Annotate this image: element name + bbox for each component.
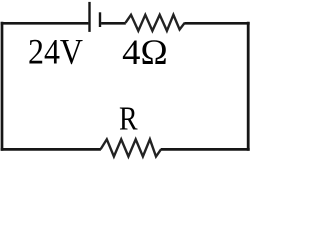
- wire: battery to resistor R1: [101, 22, 126, 25]
- resistor R1 (4 ohm) zigzag: [126, 15, 185, 31]
- svg-text:4Ω: 4Ω: [122, 32, 168, 72]
- wire: bottom-left horizontal segment: [1, 148, 101, 151]
- wire: bottom-right horizontal segment: [161, 148, 250, 151]
- wire: left vertical side: [1, 22, 4, 151]
- svg-text:R: R: [119, 101, 138, 138]
- battery B1 long plate (positive terminal): [88, 2, 90, 32]
- wire: right vertical side: [247, 22, 250, 151]
- wire: resistor R1 to top-right corner: [184, 22, 249, 25]
- resistor R zigzag: [101, 139, 162, 156]
- svg-text:24V: 24V: [28, 32, 83, 72]
- wire: top-left horizontal segment: [1, 22, 89, 25]
- battery B1 short plate (negative terminal): [99, 12, 101, 27]
